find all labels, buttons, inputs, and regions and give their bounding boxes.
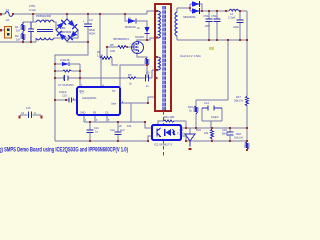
svg-text:220u: 220u (233, 25, 239, 29)
wire C9 column (216, 11, 218, 40)
svg-text:10R: 10R (110, 49, 115, 53)
IC U1 ICE2QS03G (77, 87, 120, 115)
svg-text:R6: R6 (97, 50, 101, 54)
wire comp network loop (202, 108, 222, 128)
TL431 IC3 (185, 134, 195, 150)
inductor L2 (229, 9, 239, 11)
capacitor C8 out (206, 19, 213, 22)
junction J9 (99, 13, 101, 15)
wire Y-cap (20, 114, 41, 116)
junction J30 (89, 140, 91, 142)
junction J51 (229, 140, 231, 142)
svg-text:10k: 10k (127, 124, 132, 128)
connector X1 (5, 27, 12, 39)
junction J28 (117, 121, 119, 123)
wire choke to bridge AC1 (54, 22, 56, 30)
svg-text:g) SMPS Demo Board using ICE2Q: g) SMPS Demo Board using ICE2QS03G and I… (0, 148, 128, 154)
junction J37 (225, 10, 227, 12)
junction J8 (87, 13, 89, 15)
capacitor C7 vcc (64, 76, 68, 81)
wire fb rail B (186, 140, 247, 142)
wire bus to opto (145, 122, 152, 128)
svg-text:R5: R5 (110, 43, 114, 47)
wire opto right bottom (181, 136, 186, 141)
junction J20 (79, 77, 81, 79)
diode D3 vcc (62, 62, 69, 66)
junction J33 (189, 7, 191, 9)
junction J6 (30, 41, 32, 43)
junction J29 (144, 121, 146, 123)
svg-text:R15: R15 (188, 105, 193, 109)
junction J43 (246, 39, 248, 41)
wire source to sense resistor (137, 52, 147, 58)
capacitor C12 (115, 132, 122, 135)
choke L1 windings (36, 20, 54, 40)
svg-text:1n: 1n (146, 84, 149, 88)
svg-text:2A: 2A (6, 18, 9, 22)
svg-text:10k: 10k (204, 131, 209, 135)
transformer aux winding (155, 57, 160, 70)
svg-text:25V: 25V (205, 24, 210, 28)
svg-text:C14: C14 (204, 101, 209, 105)
resistor R5 gate (118, 46, 126, 49)
wire HV pin column (100, 58, 102, 87)
capacitor C9 fb pin (69, 98, 72, 103)
junction J41 (227, 39, 229, 41)
capacitor C10 out (237, 20, 244, 23)
wire C8 column (208, 11, 210, 40)
wire sub-rail top of RC filter (23, 14, 36, 22)
junction J19 (79, 70, 81, 72)
junction J46 (211, 127, 213, 129)
junction J36 (216, 10, 218, 12)
wire gate pin route (120, 97, 155, 103)
junction J42 (239, 39, 241, 41)
wire opto collector (181, 121, 186, 128)
svg-text:C11: C11 (94, 126, 99, 130)
svg-text:C15: C15 (222, 128, 227, 132)
capacitor C13 Y-cap (19, 112, 43, 119)
wire bottom rail left (0, 38, 36, 42)
svg-text:IC1: IC1 (80, 92, 84, 95)
wire crossing stub (130, 103, 132, 122)
wire secondary bottom (176, 36, 178, 40)
optocoupler IC2 (152, 125, 181, 140)
wire secondary ground rail (177, 39, 247, 41)
wire comp corner (196, 100, 228, 128)
junction J40 (216, 39, 218, 41)
junction J22 (156, 10, 158, 12)
svg-text:C12: C12 (110, 128, 115, 132)
bridge rectifier B1 (56, 19, 78, 41)
wire secondary top (177, 4, 192, 12)
junction J14 (146, 64, 148, 66)
svg-text:0.1uF: 0.1uF (29, 8, 36, 12)
resistor R7 sense (146, 58, 149, 65)
junction J47 (229, 127, 231, 129)
wire comp column (227, 40, 229, 100)
junction J7 (66, 13, 68, 15)
svg-text:TL431: TL431 (177, 132, 185, 136)
svg-text:275V: 275V (29, 4, 35, 8)
svg-text:10k,1%: 10k,1% (234, 136, 244, 140)
bridge diode top-left (57, 20, 66, 29)
svg-text:ICE2QS03G: ICE2QS03G (82, 96, 96, 100)
svg-text:SB1060SL: SB1060SL (183, 15, 196, 19)
wire primary ground rail (55, 140, 148, 142)
bridge diode top-right (68, 20, 77, 29)
svg-text:HV: HV (112, 90, 116, 93)
transformer primary winding (155, 11, 160, 38)
junction J39 (208, 39, 210, 41)
junction J21 (156, 77, 158, 79)
junction J1 (0, 13, 2, 15)
wire startup resistor link (112, 58, 118, 65)
resistor R16 opto (164, 120, 174, 122)
transformer core dashed (162, 6, 166, 110)
svg-text:1N4148: 1N4148 (60, 58, 70, 62)
isolation barrier dashed (163, 111, 165, 157)
svg-text:IPP06N60C3: IPP06N60C3 (113, 37, 129, 41)
diode D2b output (192, 8, 200, 14)
capacitor C14 comp (202, 106, 222, 111)
wire TL431 stub (189, 128, 191, 147)
wire choke to bridge AC2 (54, 30, 78, 38)
wire connector feed (0, 29, 4, 31)
capacitor C9 out (214, 19, 221, 22)
wire snubber drop (125, 14, 147, 40)
junction J17 (54, 77, 56, 79)
svg-text:R17: R17 (236, 95, 241, 99)
junction J44 (185, 127, 187, 129)
resistor R18 (246, 142, 249, 149)
bridge diode bottom-left (57, 31, 66, 40)
wire Vout rail (202, 10, 247, 12)
junction J35 (208, 10, 210, 12)
svg-text:470u: 470u (203, 14, 209, 18)
svg-text:1u: 1u (95, 130, 98, 134)
wire gate wire (107, 46, 132, 48)
svg-text:C7 47uF/25V: C7 47uF/25V (58, 83, 74, 87)
svg-text:C13: C13 (26, 107, 31, 110)
junction J52 (246, 140, 248, 142)
svg-text:L2: L2 (230, 12, 233, 16)
svg-text:IC2 SFH617-3: IC2 SFH617-3 (154, 143, 172, 147)
junction J5 (22, 41, 24, 43)
junction J45 (195, 127, 197, 129)
svg-text:2KBP06M: 2KBP06M (59, 30, 72, 34)
wire bulk cap column (87, 14, 89, 42)
svg-text:100pF: 100pF (211, 115, 219, 119)
svg-text:R2: R2 (15, 34, 19, 38)
junction J24 (156, 56, 158, 58)
junction J38 (239, 10, 241, 12)
transformer T1 red box (155, 4, 171, 111)
svg-text:2n2: 2n2 (120, 128, 125, 132)
junction J23 (156, 37, 158, 39)
fuse F1 (5, 12, 13, 17)
wire drain node (137, 38, 155, 42)
bridge diode bottom-right (68, 31, 77, 40)
junction J26 (147, 102, 149, 104)
wire VCC ladder rung1 (55, 63, 80, 65)
wire bridge DC+ to rail (66, 14, 68, 19)
svg-text:C10: C10 (62, 94, 67, 98)
svg-text:C3: C3 (89, 18, 93, 22)
wire startup resistor to gate node (106, 47, 108, 58)
wire R19 column (211, 128, 213, 141)
transformer secondary winding (175, 12, 177, 36)
diode Z1 clamp (145, 27, 150, 34)
junction J4 (32, 13, 34, 15)
junction J27 (89, 121, 91, 123)
svg-text:R19: R19 (196, 128, 201, 132)
wire CS branch (120, 65, 147, 87)
wire R18 column (246, 128, 248, 151)
wire AC line in (0, 13, 5, 15)
svg-text:B1: B1 (62, 26, 66, 30)
diode D2a output (192, 1, 200, 7)
junction J25 (156, 69, 158, 71)
svg-text:R11 20R: R11 20R (164, 115, 174, 119)
svg-text:470u: 470u (211, 14, 217, 18)
svg-text:Gate: Gate (111, 103, 117, 106)
svg-text:1.5M: 1.5M (97, 54, 104, 58)
svg-text:GND: GND (80, 112, 86, 115)
wire sense resistor bottom (146, 65, 148, 78)
svg-text:68uF: 68uF (89, 28, 95, 32)
diode D1 snubber (128, 19, 136, 24)
wire HV startup column (99, 14, 101, 58)
svg-text:100nF: 100nF (59, 90, 67, 94)
svg-text:2.2uH: 2.2uH (228, 16, 235, 20)
wire bridge DC- (67, 41, 88, 42)
svg-text:MUR160: MUR160 (125, 25, 136, 29)
resistor R6 startup (100, 57, 112, 60)
wire R16 link (158, 121, 186, 125)
svg-text:C9: C9 (146, 71, 150, 75)
svg-text:R1: R1 (15, 25, 19, 29)
svg-text:FB: FB (93, 112, 96, 115)
wire primary ground return (55, 42, 88, 141)
capacitor C1 X2 (28, 22, 34, 42)
junction J2 (0, 29, 2, 31)
resistor R8 aux (128, 77, 136, 79)
resistor R1 (22, 22, 25, 31)
svg-text:R18: R18 (236, 132, 241, 136)
svg-text:68nF: 68nF (222, 132, 228, 136)
wire feedback sense column (246, 11, 248, 128)
wire VCC right rail (79, 64, 81, 87)
wire rectifier join (200, 4, 202, 11)
svg-text:SF4007: SF4007 (135, 35, 145, 39)
mosfet Q1 (132, 42, 144, 54)
junction J32 (147, 140, 149, 142)
svg-text:Vout=12 V, 0.66A: Vout=12 V, 0.66A (180, 54, 201, 58)
resistor R17 divider top (246, 96, 249, 106)
wire IC bottom bus (84, 115, 145, 122)
junction J48 (246, 127, 248, 129)
capacitor C11 (87, 130, 94, 133)
resistor R15 (195, 106, 198, 114)
wire VCC ladder rung2 (55, 70, 80, 72)
capacitor C3 bulk (84, 24, 92, 27)
junction J53 (246, 149, 248, 151)
junction J13 (106, 46, 108, 48)
junction J11 (87, 41, 89, 43)
wire FB pin line (55, 99, 77, 101)
wire top rail DC+ (13, 11, 155, 14)
wire aux line (55, 70, 155, 78)
junction J3 (12, 13, 14, 15)
junction J34 (201, 10, 203, 12)
junction J50 (211, 140, 213, 142)
resistor R4 vcc (63, 70, 71, 72)
junction J10 (124, 13, 126, 15)
wire C11 column (89, 122, 91, 141)
wire C15 column (229, 128, 231, 141)
resistor R19 (211, 129, 214, 139)
svg-text:PD5949/396: PD5949/396 (36, 14, 51, 18)
junction J31 (117, 140, 119, 142)
svg-text:28k,1%: 28k,1% (234, 99, 244, 103)
junction J15 (54, 63, 56, 65)
svg-text:L1: L1 (43, 18, 46, 22)
junction J18 (54, 99, 56, 101)
svg-text:400V: 400V (89, 32, 95, 36)
svg-text:F1: F1 (6, 8, 10, 12)
junction J49 (185, 140, 187, 142)
capacitor C15 (227, 132, 234, 135)
svg-text:R9: R9 (128, 73, 132, 77)
svg-text:IC3: IC3 (179, 128, 184, 132)
junction J12 (146, 39, 148, 41)
junction J16 (54, 70, 56, 72)
wire opto emitter to ground (148, 136, 152, 141)
wire C12 column (117, 122, 119, 141)
wire C10 column (239, 11, 241, 40)
resistor R2 (22, 31, 25, 42)
wire fb rail A (186, 127, 247, 129)
node output flag (209, 47, 214, 50)
svg-text:CS: CS (105, 112, 109, 115)
capacitor C6 aux (64, 75, 149, 82)
